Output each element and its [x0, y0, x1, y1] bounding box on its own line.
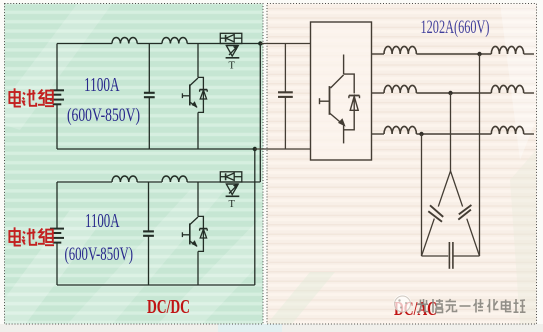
bypass device T2 (diode box + transistor) — [220, 172, 242, 210]
right DC/AC panel background — [267, 4, 537, 332]
left DC/DC panel background — [0, 0, 263, 332]
node C junction dot — [419, 132, 423, 136]
IGBT Q2 leg wires — [197, 182, 199, 216]
inductor L5 phase A — [384, 46, 416, 54]
phase C wire from inverter — [372, 133, 385, 135]
filter capacitor C2 vertical wire — [148, 182, 150, 231]
svg-text:(600V-850V): (600V-850V) — [65, 244, 134, 265]
filter capacitor C1 vertical wire — [148, 44, 150, 93]
top rail wire — [57, 43, 112, 45]
node P1 junction dot — [258, 41, 262, 45]
phase A wire after inductor — [416, 53, 491, 55]
svg-text:1202A(660V): 1202A(660V) — [421, 18, 490, 38]
watermark text 光储充一体化电站 — [417, 299, 526, 313]
DC link capacitor C3 plates — [278, 92, 293, 97]
top rail wire — [57, 181, 112, 183]
wire after L2 to junction — [187, 43, 260, 45]
DC link capacitor C3 wires — [284, 44, 286, 93]
node A junction dot — [477, 52, 481, 56]
bottom rail wire — [57, 284, 255, 286]
node N1 junction dot — [253, 147, 257, 151]
delta left side wires — [438, 171, 450, 207]
inductor L6 phase B — [384, 85, 416, 93]
inductor L1 — [112, 38, 137, 44]
inverter module U1 box — [311, 22, 372, 160]
phase A wire from inverter — [372, 53, 385, 55]
bypass device T1 (diode box + transistor) — [220, 33, 242, 71]
IGBT Q1 with antiparallel diode — [182, 77, 207, 112]
IGBT Q1 leg wires — [197, 44, 199, 78]
wire between inductors — [137, 43, 162, 45]
battery B1 left vertical wire — [56, 44, 58, 91]
bus wire N: node N1 down to bottom rail of converter 2 — [254, 149, 256, 285]
inductor L3 — [112, 176, 137, 182]
phase C wire after second inductor — [524, 133, 534, 135]
delta right side wires — [451, 171, 463, 207]
inductor L2 — [162, 38, 187, 44]
inductor L7 phase C — [384, 126, 416, 134]
label 电池组 (bottom battery group), hand drawn strokes — [9, 227, 54, 245]
capacitor C6 plates (base of delta) — [449, 242, 453, 269]
inductor L8 phase A grid side — [491, 46, 523, 54]
phase B wire after inductor — [416, 92, 491, 94]
phase A wire after second inductor — [524, 53, 534, 55]
capacitor C5 plates (right side of delta) — [458, 205, 471, 220]
inductor L9 phase B grid side — [491, 85, 523, 93]
inverter IGBT symbol — [320, 55, 360, 144]
phase C wire after inductor — [416, 133, 491, 135]
wire phase C down to delta left corner — [421, 134, 423, 256]
label 电池组 (top battery group), hand drawn strokes — [9, 88, 54, 106]
svg-text:1100A: 1100A — [84, 74, 120, 96]
watermark logo circle — [394, 295, 412, 313]
wire after L4 to right — [187, 181, 260, 183]
wire phase B down to delta apex — [450, 93, 452, 171]
svg-text:DC/DC: DC/DC — [147, 296, 190, 318]
wire phase A down to delta right corner — [479, 54, 481, 256]
DC- rail into inverter — [255, 148, 311, 150]
inductor L10 phase C grid side — [491, 126, 523, 134]
DC+ rail into inverter — [260, 43, 310, 45]
battery B2 left vertical wire — [56, 182, 58, 229]
node B junction dot — [448, 91, 452, 95]
battery B2 plates — [50, 229, 64, 243]
IGBT Q2 with antiparallel diode — [182, 216, 207, 251]
delta base wires — [422, 255, 449, 257]
wire between inductors — [137, 181, 162, 183]
phase B wire from inverter — [372, 92, 385, 94]
inductor L4 — [162, 176, 187, 182]
bus wire P: top rail of converter 2 up to node P1 — [259, 44, 261, 183]
phase B wire after second inductor — [524, 92, 534, 94]
svg-text:1100A: 1100A — [85, 210, 120, 232]
capacitor C1 plates — [144, 93, 155, 97]
capacitor C4 plates (left side of delta) — [428, 205, 443, 221]
svg-text:(600V-850V): (600V-850V) — [67, 105, 140, 126]
battery B1 plates — [50, 90, 64, 104]
bottom rail wire — [57, 148, 255, 150]
capacitor C2 plates — [143, 231, 154, 235]
